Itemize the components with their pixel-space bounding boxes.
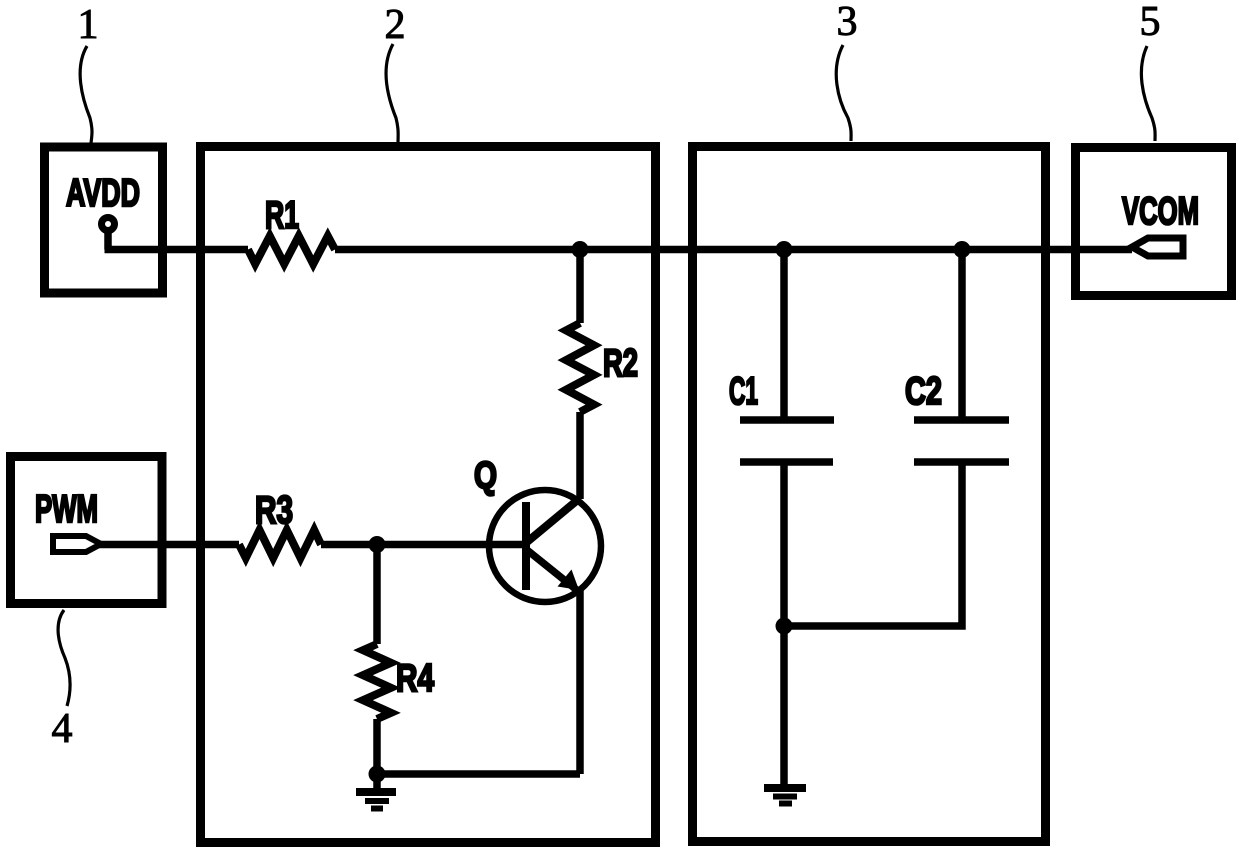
- wire: R4 tap down to R4: [373, 545, 381, 645]
- svg-text:1: 1: [78, 2, 99, 48]
- node junction on rail at R2: [572, 241, 589, 258]
- wire: main rail R1 to VCOM: [335, 246, 1132, 254]
- svg-text:R4: R4: [396, 657, 434, 700]
- box 4 (PWM input block): [11, 457, 163, 604]
- svg-text:R2: R2: [603, 342, 638, 385]
- node junction at R4 tap: [369, 536, 386, 553]
- wire: AVDD terminal stem: [104, 228, 112, 250]
- AVDD terminal circle: [102, 218, 115, 231]
- leader line to box 4: [58, 610, 70, 706]
- resistor R4: [363, 644, 391, 719]
- leader line to box 5: [1141, 46, 1155, 141]
- wire: R4 to ground: [373, 719, 381, 788]
- wire: rail down to C1: [780, 250, 788, 418]
- node junction at filter ground: [776, 618, 793, 635]
- wire: rail down to R2: [576, 250, 584, 324]
- resistor R1: [248, 236, 335, 264]
- svg-text:PWM: PWM: [35, 488, 98, 531]
- wire: emitter return to R4 node: [377, 770, 580, 778]
- capacitor C1: [740, 420, 834, 462]
- wire: R2 to transistor collector: [576, 412, 584, 499]
- box 2 (drive circuit block): [201, 147, 656, 843]
- wire: ground node down: [780, 626, 788, 785]
- capacitor C2: [914, 420, 1009, 462]
- leader line to box 1: [80, 46, 92, 143]
- box 1 (AVDD source block): [45, 147, 163, 293]
- node junction on rail at C2: [954, 241, 971, 258]
- svg-text:R1: R1: [265, 194, 299, 237]
- Q body circle: [489, 490, 601, 602]
- wire: C2 down and over to ground node: [784, 465, 962, 626]
- resistor R3: [239, 530, 321, 558]
- svg-text:C1: C1: [729, 370, 758, 413]
- node junction emitter return: [369, 766, 386, 783]
- svg-text:5: 5: [1140, 0, 1161, 45]
- leader line to box 2: [386, 44, 398, 143]
- transistor Q: [489, 490, 601, 602]
- svg-text:2: 2: [385, 2, 406, 48]
- box 5 (VCOM output block): [1076, 148, 1232, 296]
- ground symbol below R4: [356, 792, 396, 809]
- wire: main rail AVDD to R1: [105, 246, 249, 254]
- ground symbol below C1/C2: [764, 788, 806, 804]
- svg-text:R3: R3: [255, 489, 293, 532]
- wire: C1 to ground node: [780, 465, 788, 626]
- wire: rail down to C2: [958, 250, 966, 418]
- svg-text:3: 3: [837, 0, 858, 45]
- leader line to box 3: [836, 45, 851, 141]
- resistor R2: [566, 323, 594, 412]
- svg-text:4: 4: [52, 706, 73, 752]
- Q base bar: [522, 502, 530, 590]
- wire: emitter down: [576, 588, 584, 774]
- svg-text:C2: C2: [905, 370, 942, 413]
- box 3 (filter block): [693, 147, 1046, 842]
- svg-text:VCOM: VCOM: [1122, 190, 1199, 233]
- VCOM input pointer: [1132, 238, 1183, 256]
- Q emitter stroke: [527, 550, 578, 591]
- PWM output pointer: [53, 536, 101, 552]
- wire: PWM to R3: [99, 541, 239, 549]
- node junction on rail at C1: [776, 241, 793, 258]
- wire: R3 to transistor base: [321, 541, 526, 549]
- Q collector stroke: [527, 498, 580, 542]
- svg-text:AVDD: AVDD: [66, 172, 140, 215]
- Q emitter arrowhead: [558, 570, 580, 591]
- svg-text:Q: Q: [474, 455, 497, 497]
